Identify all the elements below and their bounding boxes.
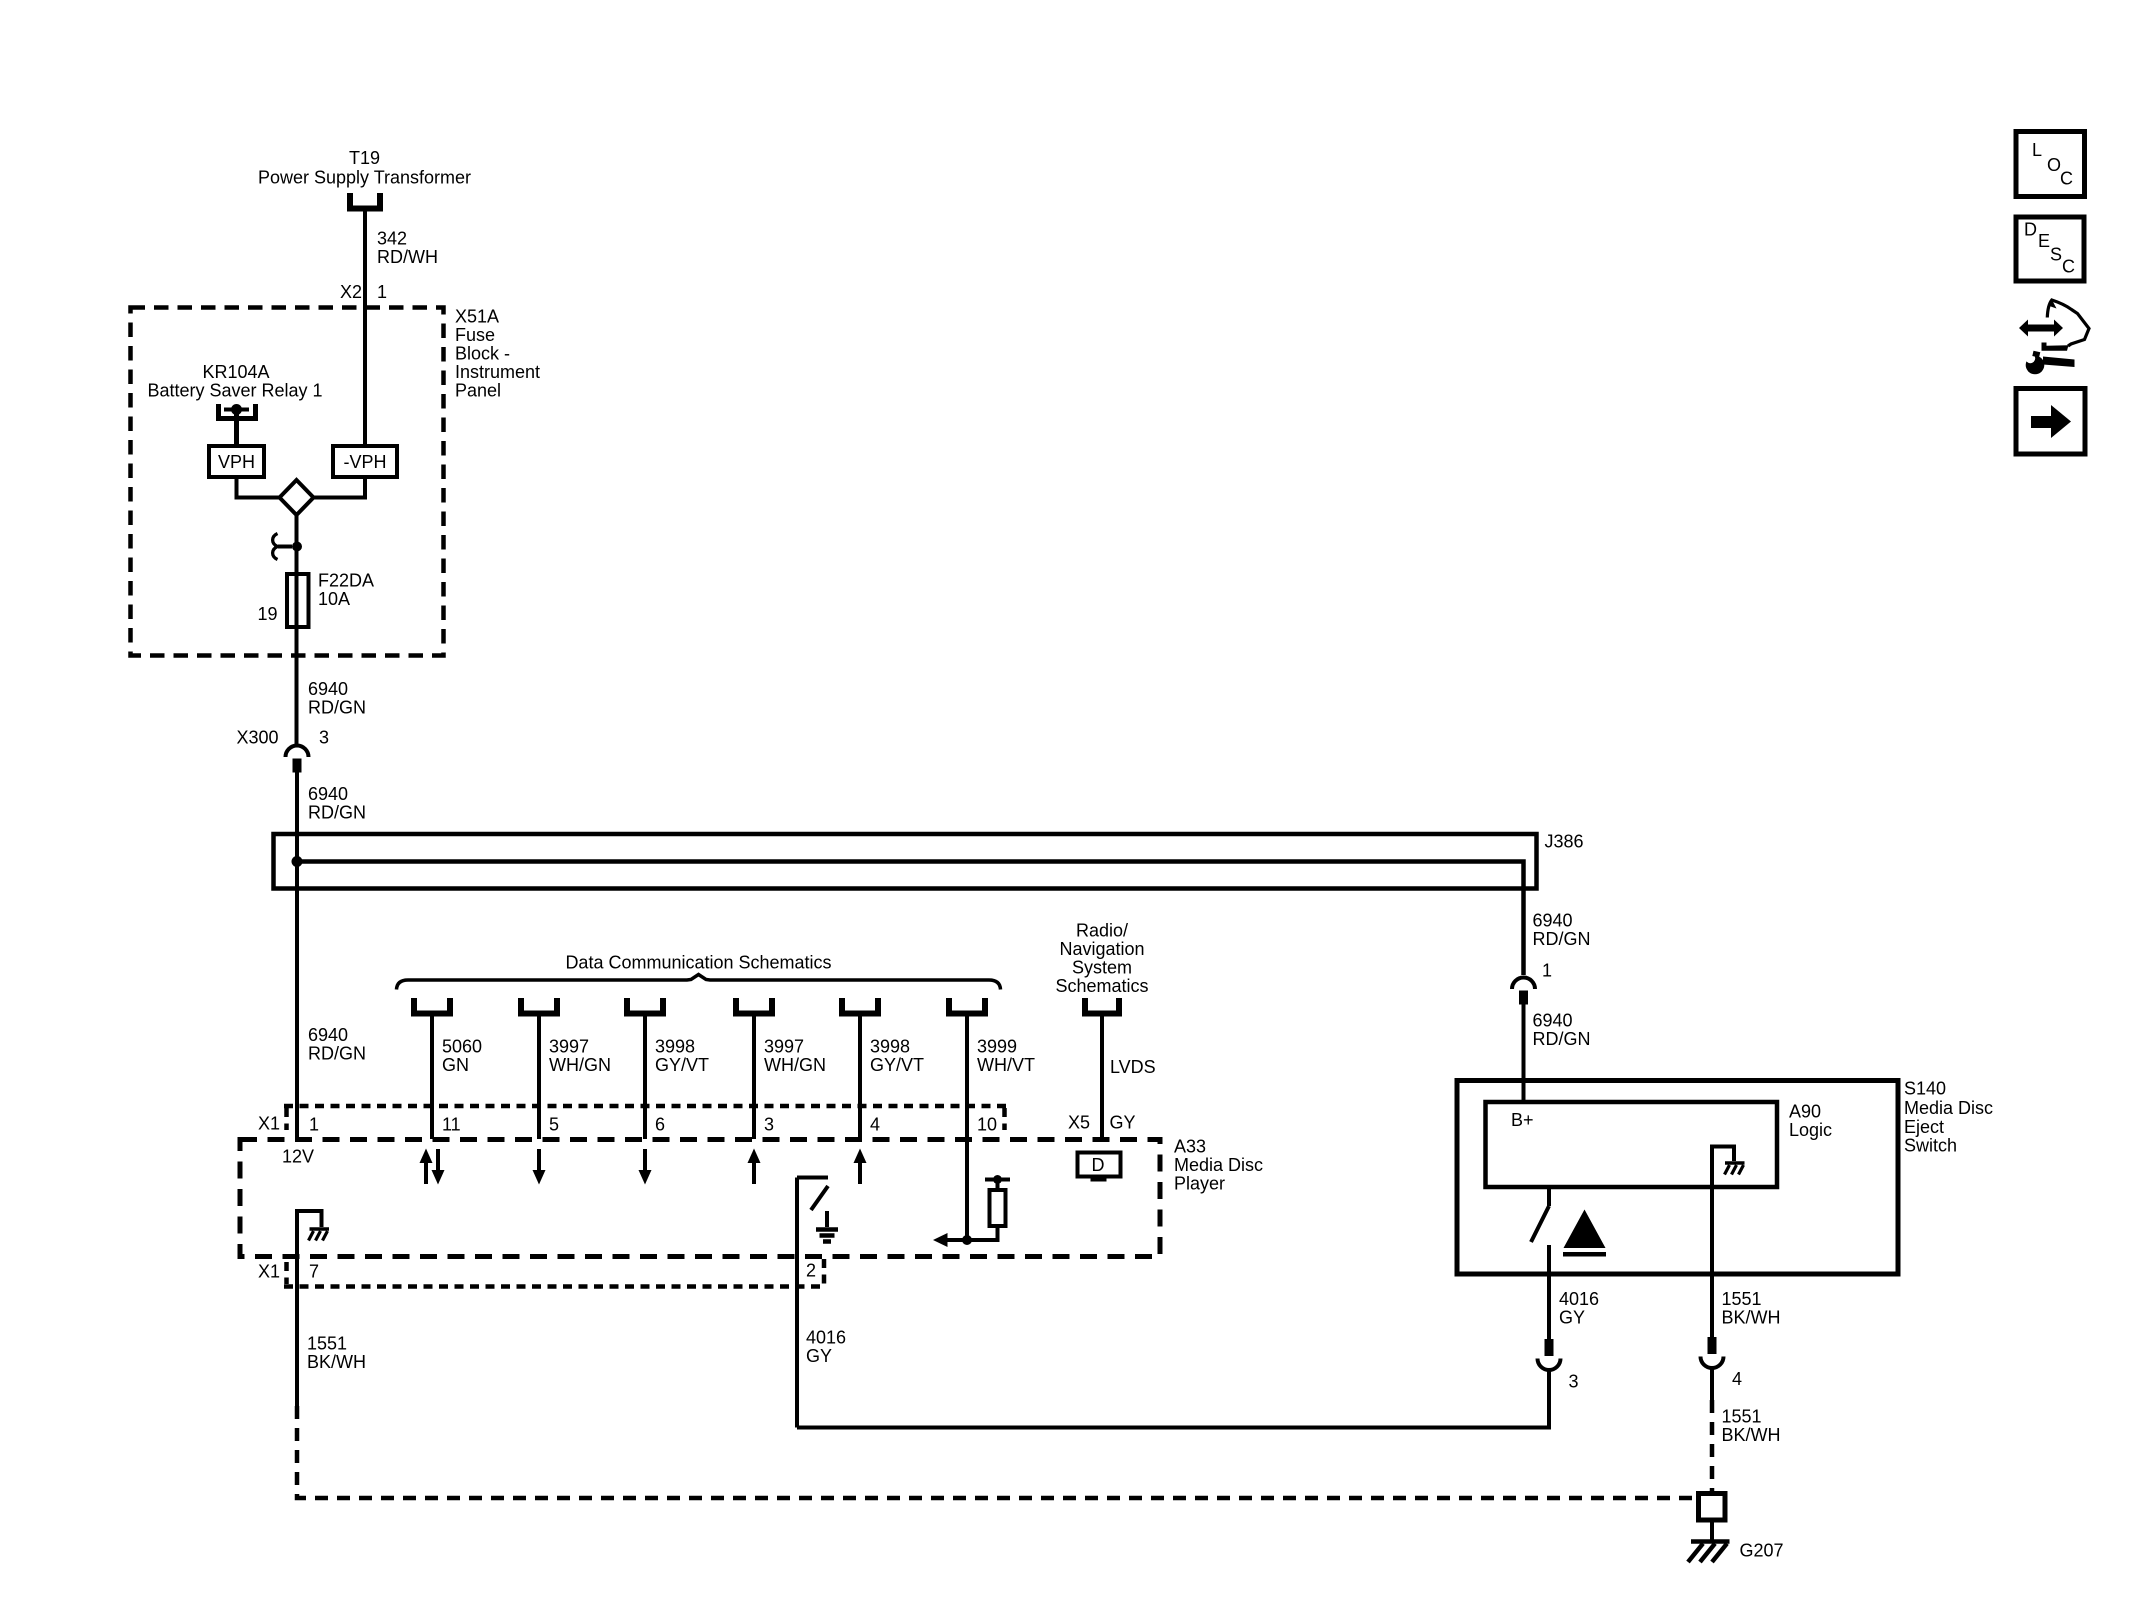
svg-text:C: C xyxy=(2062,257,2075,277)
transformer T19 connector bracket xyxy=(350,193,380,209)
svg-text:3: 3 xyxy=(1569,1372,1579,1392)
svg-text:Navigation: Navigation xyxy=(1059,939,1144,959)
down arrow pin 6 xyxy=(639,1149,652,1185)
terminal -VPH box xyxy=(333,446,397,477)
svg-text:12V: 12V xyxy=(282,1147,314,1167)
wire label 6940 RD/GN below X300 xyxy=(308,784,366,823)
svg-text:X2: X2 xyxy=(340,282,362,302)
svg-text:B+: B+ xyxy=(1511,1110,1534,1130)
svg-text:6940: 6940 xyxy=(1533,911,1573,931)
svg-text:KR104A: KR104A xyxy=(202,362,269,382)
svg-text:Switch: Switch xyxy=(1904,1136,1957,1156)
junction on J386 bus xyxy=(292,856,303,867)
fuse value label F22DA 10A xyxy=(318,571,374,610)
svg-text:342: 342 xyxy=(377,229,407,249)
fuse block X51A label xyxy=(455,307,540,401)
svg-text:1: 1 xyxy=(1542,961,1552,981)
svg-text:D: D xyxy=(1092,1155,1105,1175)
wire 1551 BK/WH below pin 4 xyxy=(1710,1369,1714,1401)
connector bracket pin 6 wire 3998 xyxy=(627,998,663,1014)
svg-text:6: 6 xyxy=(655,1115,665,1135)
wire LVDS GY xyxy=(1100,1014,1104,1140)
svg-text:GY: GY xyxy=(1110,1113,1136,1133)
svg-text:Eject: Eject xyxy=(1904,1117,1944,1137)
svg-text:Panel: Panel xyxy=(455,381,501,401)
connector X1 top dashed line xyxy=(284,1106,1006,1130)
svg-text:RD/GN: RD/GN xyxy=(1533,929,1591,949)
svg-text:L: L xyxy=(2032,140,2042,160)
wire -VPH to diamond node xyxy=(314,477,366,498)
svg-text:RD/GN: RD/GN xyxy=(308,698,366,718)
svg-text:C: C xyxy=(2060,169,2073,189)
eject symbol triangle xyxy=(1563,1210,1606,1257)
connector bracket pin 10 wire 3999 xyxy=(949,998,985,1014)
svg-text:RD/GN: RD/GN xyxy=(308,803,366,823)
svg-text:BK/WH: BK/WH xyxy=(1722,1308,1781,1328)
chassis ground symbol A90 xyxy=(1725,1163,1745,1175)
internal pull-up resistor xyxy=(985,1175,1010,1226)
svg-text:3998: 3998 xyxy=(655,1037,695,1057)
wire diamond to fuse and down to X300 xyxy=(295,515,299,745)
svg-text:T19: T19 xyxy=(349,148,380,168)
svg-text:3997: 3997 xyxy=(764,1037,804,1057)
svg-text:WH/GN: WH/GN xyxy=(549,1055,611,1075)
wire label 5060 GN xyxy=(442,1037,482,1076)
up arrow pin 4 xyxy=(854,1149,867,1185)
terminal VPH box xyxy=(209,446,264,477)
svg-text:WH/GN: WH/GN xyxy=(764,1055,826,1075)
svg-text:A90: A90 xyxy=(1789,1102,1821,1122)
icon arrow box xyxy=(2016,389,2085,455)
svg-text:X1: X1 xyxy=(258,1114,280,1134)
internal ground wire A90 xyxy=(1712,1147,1734,1338)
svg-text:GY: GY xyxy=(806,1346,832,1366)
svg-text:RD/GN: RD/GN xyxy=(1533,1029,1591,1049)
wire 3998 GY/VT xyxy=(643,1014,647,1140)
wire label 6940 RD/GN right lower xyxy=(1533,1011,1591,1050)
media disc eject switch S140 box xyxy=(1457,1081,1898,1275)
svg-text:3997: 3997 xyxy=(549,1037,589,1057)
svg-text:Fuse: Fuse xyxy=(455,325,495,345)
logic module A90 label xyxy=(1789,1102,1832,1141)
svg-text:1: 1 xyxy=(377,282,387,302)
logic module A90 box xyxy=(1486,1102,1778,1187)
splice pack J386 box xyxy=(274,834,1537,889)
wire label 4016 GY left xyxy=(806,1328,846,1367)
svg-text:GY/VT: GY/VT xyxy=(655,1055,709,1075)
wire label 3997 WH/GN xyxy=(549,1037,611,1076)
svg-text:A33: A33 xyxy=(1174,1137,1206,1157)
svg-text:19: 19 xyxy=(257,604,277,624)
svg-text:3: 3 xyxy=(319,728,329,748)
svg-text:1551: 1551 xyxy=(1722,1407,1762,1427)
svg-text:2: 2 xyxy=(806,1261,816,1281)
svg-text:X1: X1 xyxy=(258,1262,280,1282)
wire 4016 GY horizontal run xyxy=(797,1371,1549,1428)
icon LOC box xyxy=(2016,132,2085,197)
wire 3997 WH/GN xyxy=(537,1014,541,1140)
svg-text:7: 7 xyxy=(309,1262,319,1282)
svg-text:4016: 4016 xyxy=(806,1328,846,1348)
wire label 1551 BK/WH right lower xyxy=(1722,1407,1781,1446)
wire VPH to diamond node xyxy=(237,477,280,498)
relay KR104A contact symbol xyxy=(219,404,256,446)
svg-text:S140: S140 xyxy=(1904,1079,1946,1099)
connector bracket pin 11 wire 5060 xyxy=(414,998,450,1014)
relay KR104A label xyxy=(147,362,322,401)
wire label 3997 WH/GN second xyxy=(764,1037,826,1076)
wire label 3998 GY/VT second xyxy=(870,1037,924,1076)
svg-text:X300: X300 xyxy=(236,728,278,748)
svg-text:11: 11 xyxy=(442,1115,461,1135)
svg-text:10: 10 xyxy=(977,1115,997,1135)
splice clip symbol xyxy=(273,534,302,560)
wire 3998 GY/VT second xyxy=(858,1014,862,1140)
wire label 6940 RD/GN above X300 xyxy=(308,679,366,718)
svg-text:RD/WH: RD/WH xyxy=(377,247,438,267)
icon harness outline xyxy=(2042,299,2090,351)
svg-text:Battery Saver Relay 1: Battery Saver Relay 1 xyxy=(147,381,322,401)
ground block G207 square xyxy=(1699,1494,1726,1521)
svg-text:10A: 10A xyxy=(318,589,350,609)
display icon D xyxy=(1078,1153,1121,1182)
svg-text:4016: 4016 xyxy=(1559,1289,1599,1309)
svg-text:1551: 1551 xyxy=(307,1334,347,1354)
svg-text:X5: X5 xyxy=(1068,1113,1090,1133)
icon harness repair arrows xyxy=(2019,320,2063,337)
svg-text:G207: G207 xyxy=(1740,1541,1784,1561)
eject switch contact in S140 xyxy=(1531,1187,1549,1339)
splice pack J386 bus bar xyxy=(297,862,1524,976)
svg-text:J386: J386 xyxy=(1545,832,1584,852)
connector bracket radio LVDS xyxy=(1085,998,1119,1014)
bidirectional arrows pin 11 xyxy=(420,1149,445,1185)
svg-text:4: 4 xyxy=(870,1115,880,1135)
svg-text:X51A: X51A xyxy=(455,307,499,327)
svg-text:3: 3 xyxy=(764,1115,774,1135)
connector X300 inline connector symbol xyxy=(286,746,309,773)
media disc player A33 label xyxy=(1174,1137,1263,1194)
wire 6940 RD/GN from X300 to A33 pin 1 xyxy=(295,773,299,1140)
wire 3997 WH/GN second xyxy=(752,1014,756,1140)
eject switch contact in A33 xyxy=(797,1178,828,1428)
svg-text:System: System xyxy=(1072,958,1132,978)
wire 342 RD/WH from T19 to fuse block xyxy=(363,211,367,446)
svg-text:Media Disc: Media Disc xyxy=(1904,1098,1993,1118)
fuse block X51A dashed box xyxy=(131,308,444,656)
svg-text:3998: 3998 xyxy=(870,1037,910,1057)
svg-text:6940: 6940 xyxy=(308,784,348,804)
down arrow pin 5 xyxy=(533,1149,546,1185)
wire 3999 WH/VT xyxy=(965,1014,969,1241)
svg-text:RD/GN: RD/GN xyxy=(308,1044,366,1064)
connector X1 bottom dashed line xyxy=(284,1259,826,1287)
svg-text:Logic: Logic xyxy=(1789,1120,1832,1140)
svg-text:GN: GN xyxy=(442,1055,469,1075)
svg-text:1551: 1551 xyxy=(1722,1289,1762,1309)
wire label 6940 RD/GN right upper xyxy=(1533,911,1591,950)
wire 5060 GN xyxy=(430,1014,434,1140)
svg-text:Instrument: Instrument xyxy=(455,362,540,382)
internal termination pin 10 with left arrow xyxy=(933,1226,998,1247)
svg-text:O: O xyxy=(2047,155,2061,175)
wire label 3998 GY/VT xyxy=(655,1037,709,1076)
svg-text:3999: 3999 xyxy=(977,1037,1017,1057)
svg-text:F22DA: F22DA xyxy=(318,571,374,591)
radio navigation reference label xyxy=(1055,921,1148,997)
svg-text:6940: 6940 xyxy=(1533,1011,1573,1031)
connector bracket pin 4 wire 3998 xyxy=(842,998,878,1014)
svg-text:LVDS: LVDS xyxy=(1110,1057,1156,1077)
wire label 1551 BK/WH right upper xyxy=(1722,1289,1781,1328)
svg-text:Block -: Block - xyxy=(455,344,510,364)
wire label 4016 GY right xyxy=(1559,1289,1599,1328)
svg-text:GY/VT: GY/VT xyxy=(870,1055,924,1075)
svg-text:1: 1 xyxy=(309,1115,319,1135)
ground G207 symbol xyxy=(1688,1542,1730,1563)
svg-text:D: D xyxy=(2024,220,2037,240)
svg-text:6940: 6940 xyxy=(308,1025,348,1045)
svg-text:BK/WH: BK/WH xyxy=(1722,1425,1781,1445)
inline connector pin 4 xyxy=(1701,1337,1724,1368)
wire label 342 RD/WH xyxy=(377,229,438,268)
media disc player A33 dashed box xyxy=(240,1140,1160,1257)
inline connector right pin 1 xyxy=(1512,978,1535,1005)
svg-text:VPH: VPH xyxy=(218,452,255,472)
dashed ground wire 1551 BK/WH to G207 xyxy=(297,1406,1698,1498)
wire G207 square to ground xyxy=(1710,1520,1714,1540)
connector bracket pin 3 wire 3997 xyxy=(736,998,772,1014)
svg-text:Player: Player xyxy=(1174,1174,1225,1194)
wire label 3999 WH/VT xyxy=(977,1037,1035,1076)
svg-text:Schematics: Schematics xyxy=(1055,976,1148,996)
dashed wire to ground block xyxy=(1710,1400,1715,1493)
svg-text:Power Supply Transformer: Power Supply Transformer xyxy=(258,168,471,188)
inline connector pin 3 xyxy=(1538,1339,1561,1370)
icon wrench xyxy=(2025,351,2074,375)
wire label 1551 BK/WH left xyxy=(307,1334,366,1373)
up arrow pin 3 xyxy=(748,1149,761,1185)
svg-text:5: 5 xyxy=(549,1115,559,1135)
svg-text:GY: GY xyxy=(1559,1308,1585,1328)
wire label 6940 RD/GN above A33 xyxy=(308,1025,366,1064)
svg-text:Radio/: Radio/ xyxy=(1076,921,1128,941)
svg-text:Data Communication Schematics: Data Communication Schematics xyxy=(565,953,831,973)
svg-text:5060: 5060 xyxy=(442,1037,482,1057)
transformer T19 label xyxy=(258,148,471,188)
fuse F22DA 10A xyxy=(287,574,309,627)
wire 6940 RD/GN to S140 B+ xyxy=(1522,1005,1526,1103)
internal ground wire pin 7 xyxy=(297,1211,322,1406)
svg-text:E: E xyxy=(2038,231,2050,251)
svg-text:BK/WH: BK/WH xyxy=(307,1352,366,1372)
media disc eject switch S140 label xyxy=(1904,1079,1993,1156)
signal ground symbol in A33 xyxy=(816,1211,838,1242)
svg-text:4: 4 xyxy=(1732,1369,1742,1389)
icon DESC box xyxy=(2016,217,2084,281)
svg-text:Media Disc: Media Disc xyxy=(1174,1155,1263,1175)
svg-text:6940: 6940 xyxy=(308,679,348,699)
chassis ground symbol A33 xyxy=(309,1229,330,1241)
svg-text:S: S xyxy=(2050,245,2062,265)
svg-text:WH/VT: WH/VT xyxy=(977,1055,1035,1075)
svg-text:-VPH: -VPH xyxy=(343,452,386,472)
brace for data communication schematics xyxy=(397,975,1001,990)
diamond voltage node xyxy=(280,480,314,515)
connector bracket pin 5 wire 3997 xyxy=(521,998,557,1014)
